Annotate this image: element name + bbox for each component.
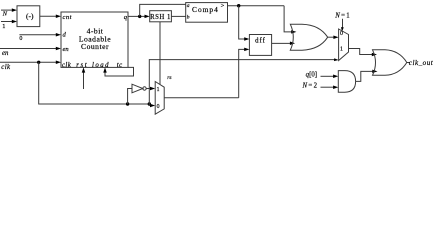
svg-text:load: load bbox=[92, 62, 110, 69]
svg-text:Comp4: Comp4 bbox=[192, 5, 219, 14]
svg-text:b: b bbox=[187, 15, 190, 21]
wire RSH select drop bbox=[159, 22, 161, 85]
svg-text:tc: tc bbox=[117, 62, 123, 69]
wire q0 to and gate bbox=[321, 75, 339, 79]
svg-text:clk: clk bbox=[1, 64, 11, 71]
wire RSH output to comparator b bbox=[171, 15, 185, 17]
node rail junction mux tap bbox=[148, 102, 151, 105]
wire inverter output to mux1 input1 bbox=[146, 87, 155, 91]
wire clk_out bbox=[407, 62, 410, 64]
svg-text:dff: dff bbox=[255, 37, 266, 44]
svg-text:(-): (-) bbox=[26, 12, 34, 21]
wire constant 0 to d bbox=[19, 33, 61, 37]
wire and output to or2 bottom input bbox=[356, 70, 378, 82]
svg-text:clk_out: clk_out bbox=[409, 59, 434, 67]
svg-text:>: > bbox=[221, 3, 225, 10]
wire clk bypass to mux2 input1 bbox=[149, 58, 338, 104]
wire mux1 output to dff clock riser bbox=[164, 97, 239, 99]
subtractor box (-) bbox=[17, 6, 40, 27]
svg-text:RSH 1: RSH 1 bbox=[150, 14, 171, 21]
svg-text:Counter: Counter bbox=[81, 42, 109, 51]
svg-text:rs: rs bbox=[167, 75, 171, 81]
node clk junction bbox=[37, 61, 40, 64]
shifter RSH1 bbox=[150, 11, 172, 22]
svg-text:cnt: cnt bbox=[63, 14, 72, 21]
wire tc to load feedback bbox=[103, 67, 133, 76]
node comparator output junction bbox=[237, 4, 240, 7]
svg-text:1: 1 bbox=[157, 87, 160, 93]
svg-text:N = 2: N = 2 bbox=[302, 83, 318, 90]
wire N input bbox=[1, 8, 17, 12]
and-gate A1 bbox=[338, 71, 355, 93]
svg-text:q[0]: q[0] bbox=[306, 72, 317, 79]
wire rst stub bbox=[82, 67, 86, 89]
inverter on clk bbox=[128, 84, 147, 104]
counter U1 4-bit Loadable Counter bbox=[61, 12, 128, 67]
wire clk drop to rail bbox=[39, 62, 150, 104]
svg-text:0: 0 bbox=[340, 31, 343, 37]
svg-text:en: en bbox=[2, 50, 9, 57]
svg-text:clk: clk bbox=[62, 62, 72, 69]
wire gated clk to dff bbox=[239, 48, 250, 98]
wire comparator to dff d input bbox=[239, 6, 250, 41]
wire comparator output bbox=[228, 5, 285, 7]
wire dff output to or1 bbox=[272, 41, 296, 45]
node rail junction inverter tap bbox=[126, 102, 129, 105]
wire en input bbox=[0, 47, 61, 51]
node q junction bbox=[138, 15, 141, 18]
wire q to comparator a bbox=[140, 4, 186, 16]
svg-text:rst: rst bbox=[76, 62, 88, 69]
svg-text:1: 1 bbox=[2, 23, 5, 30]
flip-flop dff bbox=[249, 35, 271, 56]
svg-text:N = 1: N = 1 bbox=[334, 13, 350, 20]
svg-text:1: 1 bbox=[340, 47, 343, 53]
wire clk to mux1 input0 bbox=[149, 104, 155, 108]
wire or1 output to mux2 input0 bbox=[328, 35, 339, 39]
svg-text:0: 0 bbox=[157, 104, 160, 110]
wire mux2 output to or2 top input bbox=[349, 49, 378, 57]
svg-text:a: a bbox=[187, 3, 190, 9]
mux MX2 bbox=[339, 29, 349, 61]
or-gate OR2 bbox=[373, 50, 407, 76]
wire q to RSH bbox=[128, 15, 150, 19]
svg-text:N: N bbox=[2, 11, 8, 18]
wire comparator to or1 top input bbox=[284, 6, 296, 34]
svg-text:en: en bbox=[63, 46, 69, 53]
svg-text:0: 0 bbox=[19, 36, 22, 42]
or-gate OR1 bbox=[290, 24, 327, 50]
wire clk input bbox=[0, 61, 61, 65]
mux MX1 bbox=[155, 82, 164, 115]
wire N2 to and gate bbox=[321, 85, 339, 89]
comparator Comp4 bbox=[186, 3, 228, 23]
wire constant 1 input bbox=[1, 20, 17, 24]
svg-text:d: d bbox=[63, 31, 67, 38]
wire mux2 select bbox=[341, 19, 344, 32]
wire subtractor output to cnt bbox=[40, 14, 61, 18]
svg-text:q: q bbox=[124, 14, 128, 21]
